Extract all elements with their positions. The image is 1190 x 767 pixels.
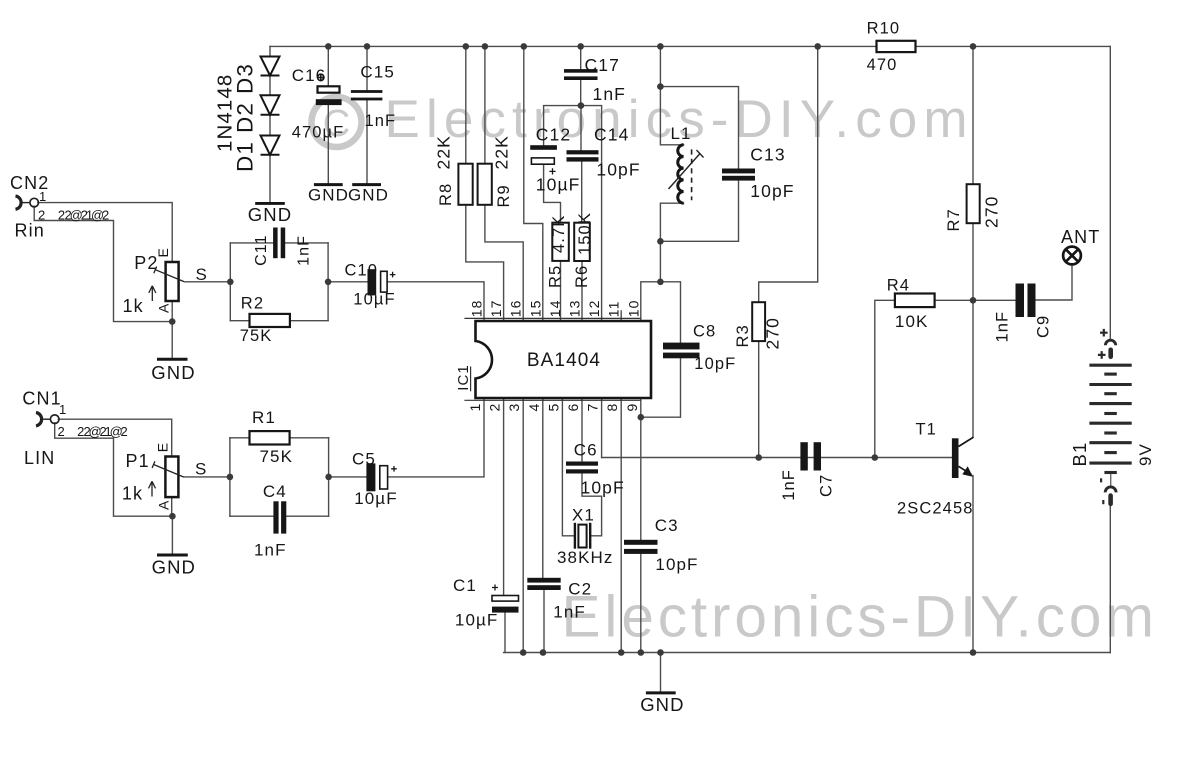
svg-text:R2: R2 [241,295,264,313]
resistor R9 [478,164,492,205]
L1 core dashed line [691,149,693,200]
wire C16 to gnd [327,105,329,183]
wire C4 bottom branch [230,515,329,517]
svg-text:1: 1 [39,189,47,204]
wire C17 bottom to node [580,80,582,106]
svg-text:R8: R8 [437,183,455,206]
connector CN2 [16,196,39,209]
svg-text:C9: C9 [1034,315,1052,338]
node rail C17 [577,43,584,50]
svg-text:C3: C3 [655,516,679,535]
resistor R2 [250,314,290,327]
svg-text:C17: C17 [585,55,620,75]
svg-text:14: 14 [547,299,563,317]
capacitor C17 [564,69,598,80]
capacitor C15 (1nF) [351,90,383,100]
svg-text:R10: R10 [867,20,901,38]
wire pin11 stub [620,311,622,321]
svg-text:10K: 10K [895,312,929,331]
node rail C15 [364,43,371,50]
wire base (pin7 to T1) [602,457,952,459]
node rail C16 [325,43,332,50]
svg-text:B1: B1 [1069,442,1090,467]
svg-text:C10: C10 [345,262,379,280]
svg-text:9: 9 [624,403,640,412]
svg-text:Electronics-DIY.com: Electronics-DIY.com [562,585,1158,650]
svg-text:ANT: ANT [1061,227,1100,247]
diode D1 [261,136,280,155]
capacitor C13 [722,169,755,181]
svg-text:8: 8 [604,403,620,412]
wire C10 to Rin node [328,281,367,283]
node base R4 [872,454,879,461]
resistor R6 [574,223,590,261]
wire C2 to rail [543,590,545,653]
svg-text:C14: C14 [594,125,629,145]
wire C15 top [366,46,368,90]
wire C15 to gnd [366,100,368,183]
svg-text:1nF: 1nF [780,469,798,501]
svg-text:10pF: 10pF [655,555,698,574]
svg-text:75K: 75K [260,447,294,466]
node C17 C12 C14 pin12 [578,102,585,109]
wire pin18 to C10 [387,282,484,321]
potentiometer P1 [165,457,178,498]
crystal X1 [575,523,590,549]
svg-text:470: 470 [867,56,898,74]
svg-text:C13: C13 [750,145,785,165]
svg-text:1nF: 1nF [296,235,313,266]
svg-text:C15: C15 [360,63,395,82]
resistor R1 [250,431,290,444]
svg-text:4.7K: 4.7K [550,215,568,253]
svg-text:R3: R3 [734,324,752,347]
wire top rail right of R10 [916,45,1111,47]
ground bottom rail [646,691,676,694]
svg-text:1nF: 1nF [365,112,397,130]
wire pin9 down [640,398,642,540]
svg-text:C2: C2 [568,580,592,599]
wire R3 bottom to base [758,341,760,457]
node Rin S [227,279,234,286]
wire node to pin10 [641,282,661,321]
svg-text:GND: GND [348,185,389,204]
wire pin3 down [522,398,524,653]
capacitor C1 (10uF electrolytic) [492,585,519,613]
L1 adjust arrow [669,150,704,189]
wire C3 to rail [640,554,642,653]
node L1 top [657,83,664,90]
wire R9 to pin16 [485,205,523,321]
svg-text:GND: GND [640,694,684,715]
svg-text:10pF: 10pF [581,478,625,498]
node rail R9 [482,43,489,50]
resistor R3 [752,302,765,341]
wire R9 top [484,46,486,163]
svg-text:R1: R1 [252,408,276,427]
wire C5 to LIN node [329,476,367,478]
potentiometer P2 [166,262,179,301]
wire gnd stem bottom [660,653,662,692]
svg-text:GND: GND [248,204,292,225]
svg-text:A: A [156,303,172,313]
wire Rin box right [327,243,329,321]
wire R6 to pin13 [581,261,583,321]
wire pin5 to X1 left [562,398,575,536]
svg-text:C6: C6 [574,441,598,460]
node rail emitter [970,649,977,656]
svg-text:D1: D1 [233,141,258,172]
wire D2-D1 [269,115,271,136]
node tank pin10 [657,279,664,286]
node rail gnd [657,649,664,656]
capacitor C3 [624,540,658,554]
diode D3 [261,57,280,76]
capacitor C7 [800,442,821,470]
svg-text:P1: P1 [126,451,150,471]
svg-text:22K: 22K [491,135,511,169]
wire D1 to gnd [269,155,271,202]
wire D3-D2 [269,76,271,96]
wire R5 to pin14 [560,261,562,321]
ground below C16 [314,183,343,186]
svg-text:470µF: 470µF [292,124,345,142]
svg-text:1: 1 [467,403,483,412]
wire node to pin12 [581,106,602,321]
svg-text:10µF: 10µF [455,611,499,630]
resistor R5 [552,223,569,261]
svg-text:R4: R4 [887,277,910,295]
svg-text:C11: C11 [253,234,270,265]
svg-text:1nF: 1nF [993,311,1011,343]
capacitor C6 [566,462,598,474]
wire rail to R7 [972,46,974,184]
wire battery minus to bottom rail [1109,505,1111,653]
svg-text:D2: D2 [233,102,258,133]
svg-text:1nF: 1nF [254,541,287,560]
svg-text:10µF: 10µF [354,489,398,508]
IC pin ticks top [464,317,640,319]
ground below P1 [157,554,188,557]
wire bottom ground rail [504,652,1111,654]
svg-text:150K: 150K [576,212,594,255]
svg-text:E: E [155,247,171,257]
svg-text:7: 7 [585,403,601,412]
wire pin6 to C6 [581,398,583,462]
svg-text:C4: C4 [263,482,287,501]
node base R3 [755,454,762,461]
capacitor C2 [527,578,560,590]
svg-text:GND: GND [151,362,195,383]
svg-text:2: 2 [58,424,66,439]
wire node to C8 [660,282,680,343]
svg-text:10µF: 10µF [353,291,395,309]
wire battery plus drop [1109,46,1111,340]
svg-text:1: 1 [59,402,67,417]
svg-text:2 2@21@2: 2 2@21@2 [77,424,129,439]
svg-text:10: 10 [625,299,641,317]
svg-text:4: 4 [526,403,542,412]
node rail R8 [463,43,470,50]
ground below C15 [352,183,381,186]
wire tank node down [659,241,661,281]
svg-text:10pF: 10pF [750,181,794,201]
transistor T1 2SC2458 [952,437,974,478]
svg-text:12: 12 [586,299,602,317]
wire L1 node to coil [660,87,683,145]
wire C12 to R5 [544,164,561,223]
svg-text:LIN: LIN [24,448,55,468]
svg-text:C16: C16 [292,66,327,85]
svg-text:18: 18 [469,299,485,317]
svg-text:L1: L1 [671,124,692,143]
node rail pin8 [618,649,625,656]
svg-text:75K: 75K [240,327,273,345]
svg-text:R9: R9 [495,184,513,207]
svg-text:D3: D3 [233,63,258,94]
wire R1 top branch [230,437,329,439]
svg-text:1k: 1k [122,484,143,504]
battery plus minus marks [1098,329,1108,504]
svg-text:CN1: CN1 [22,389,61,409]
svg-text:2 2@21@2: 2 2@21@2 [58,208,111,223]
svg-text:6: 6 [565,403,581,412]
wire Rin box left [229,243,231,321]
wire CN2 pin2 path [34,206,172,321]
wire coil bottom [660,203,683,241]
wire R7 to T1 collector [972,223,974,437]
ground below diodes [255,202,285,205]
svg-text:270: 270 [982,196,1002,229]
svg-text:T1: T1 [916,421,937,439]
capacitor C5 (10uF electrolytic) [366,463,396,491]
svg-text:X1: X1 [572,506,595,525]
node rail L1 [657,43,664,50]
IC U1 BA1404 body [476,321,652,398]
svg-text:270: 270 [763,317,783,350]
wire P2 bottom to gnd [171,300,173,357]
wire C14 to R6 [581,162,583,223]
capacitor C4 [273,501,286,533]
svg-text:A: A [156,500,172,510]
node rail pin3 [520,649,527,656]
node rail R3 [814,43,821,50]
capacitor C9 [1016,284,1036,318]
wire P1 bottom to gnd [171,497,174,553]
svg-text:BA1404: BA1404 [527,350,601,371]
wire C13 branch bottom [660,181,738,242]
svg-text:2: 2 [487,403,503,412]
svg-text:10pF: 10pF [596,160,640,180]
wire R8 to pin17 [466,205,504,321]
svg-text:1k: 1k [123,296,144,316]
svg-text:13: 13 [567,299,583,317]
wire diode chain top [269,46,271,56]
wire C9 right to ANT [1036,264,1073,300]
svg-text:C8: C8 [693,323,716,341]
svg-text:22K: 22K [434,135,454,169]
wire CN1 pin1 to P1 [58,419,171,456]
node P1 bottom [169,513,176,520]
wire rail to L1 node [659,46,661,86]
capacitor C12 (10uF electrolytic) [530,145,557,174]
resistor R7 [967,184,980,223]
svg-text:IC1: IC1 [455,364,472,391]
wire C13 branch top [660,87,738,169]
node P2 bottom [169,318,176,325]
ground below P2 [157,358,188,361]
node LIN C5 [325,474,332,481]
svg-text:11: 11 [606,300,622,317]
wire pin4 down [542,398,544,578]
wire P2 S [185,281,231,283]
svg-text:1nF: 1nF [593,84,626,104]
svg-text:3: 3 [506,403,522,412]
wire top rail left of R10 [270,45,877,47]
svg-text:R5: R5 [546,265,564,288]
wire pin8 down [620,398,622,653]
svg-text:9V: 9V [1136,443,1155,466]
capacitor C11 [273,228,285,259]
node Rin C10 [325,279,332,286]
svg-text:38KHz: 38KHz [557,548,614,567]
node L1 bottom [657,238,664,245]
wire C9 left [973,299,1016,301]
svg-text:GND: GND [308,185,349,204]
wire C1 to rail [504,613,506,653]
svg-text:10µF: 10µF [536,175,581,195]
wire pin1 to C5 [388,398,484,477]
inductor L1 [678,145,684,203]
wire node to C12 [544,106,581,146]
svg-text:E: E [155,442,171,452]
capacitor C14 [567,150,599,161]
wire rail to pin15 [524,46,543,321]
capacitor C10 (10uF electrolytic) [368,269,396,295]
wire C17 top [580,46,582,69]
wire C11 top branch [230,242,328,244]
node collector R4 C9 [970,297,977,304]
svg-text:C7: C7 [817,474,835,497]
wire CN2 pin1 to P2 [38,203,172,262]
svg-text:C12: C12 [536,125,571,145]
svg-text:1nF: 1nF [553,603,586,622]
diode D2 [261,95,280,115]
wire pin7 to base wire [601,398,603,458]
svg-text:17: 17 [488,299,504,317]
IC pin ticks bottom [464,399,640,401]
node rail pin4 [540,649,547,656]
svg-text:2SC2458: 2SC2458 [897,500,974,518]
svg-text:10pF: 10pF [694,355,736,373]
node rail pin15 [521,43,528,50]
wire C8 to pin9 node [641,358,681,417]
antenna ANT [1063,247,1081,265]
wire R3 top to rail [759,46,818,302]
svg-text:Rin: Rin [15,221,45,241]
wire LIN box left [229,438,231,516]
wire CN1 pin2 path [55,423,173,516]
watermark copyright circle [312,97,362,147]
wire P1 S [184,476,230,478]
svg-text:R6: R6 [573,265,591,288]
node rail R7 [970,43,977,50]
svg-text:S: S [196,265,208,284]
node LIN S [227,474,234,481]
wire C16 top [327,46,329,86]
wire LIN box right [328,438,330,516]
wire node to C14 [580,106,582,151]
svg-text:S: S [195,460,207,479]
resistor R4 [895,294,935,308]
wire T1 emitter down [972,476,974,653]
wire R2 bottom branch [230,320,328,322]
connector CN1 [36,413,59,426]
wire R4 left [875,300,895,457]
capacitor C16 (470uF electrolytic) [316,74,342,105]
svg-text:R7: R7 [945,208,963,231]
node C8 pin9 [638,414,645,421]
wire C6 to X1 right [582,474,602,536]
resistor R10 [877,41,916,52]
svg-text:15: 15 [527,299,543,317]
battery B1 [1089,340,1131,504]
wire R8 top [465,46,467,163]
svg-text:C1: C1 [453,576,477,595]
capacitor C8 [663,343,700,359]
svg-text:GND: GND [152,557,196,578]
wire R4 right [935,299,973,301]
resistor R8 [458,164,472,205]
svg-text:16: 16 [508,299,524,317]
wire pin2 to C1 [503,398,505,596]
svg-text:5: 5 [545,403,561,412]
node rail pin9 [638,649,645,656]
svg-text:C5: C5 [352,450,376,469]
